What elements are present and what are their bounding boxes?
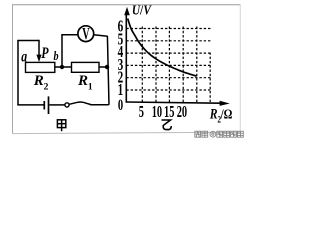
curve U vs R2 — [128, 19, 197, 77]
y axis arrow — [124, 7, 130, 15]
frame bottom — [12, 132, 241, 133]
wire left vertical — [17, 41, 19, 105]
svg-text:2: 2 — [44, 82, 49, 92]
wire voltmeter branch top right — [94, 35, 108, 36]
slider arrow P — [36, 55, 41, 62]
node junction dot left — [60, 65, 64, 69]
gridline h 4 — [126, 52, 211, 54]
frame right — [239, 4, 241, 133]
svg-text:15: 15 — [164, 103, 174, 121]
battery long plate — [48, 96, 50, 114]
frame left — [12, 4, 14, 133]
wire slider drop — [38, 40, 40, 57]
svg-text:R: R — [77, 73, 88, 89]
gridline v 10 — [155, 26, 157, 102]
svg-text:10: 10 — [152, 103, 162, 121]
gridline h 5 — [126, 40, 211, 42]
wire R2 to R1 — [55, 66, 72, 68]
wire right vertical — [107, 36, 109, 105]
switch lever — [69, 102, 91, 105]
gridline v 20 — [182, 26, 184, 102]
svg-text:5: 5 — [139, 103, 144, 121]
y axis — [125, 13, 127, 102]
svg-text:V: V — [82, 24, 89, 42]
gridline v 30 — [209, 53, 211, 103]
voltmeter V — [78, 26, 94, 42]
x axis — [126, 102, 221, 103]
watermark — [195, 131, 244, 137]
gridline h 1 — [126, 89, 211, 91]
rheostat R2 box — [26, 62, 55, 72]
svg-text:b: b — [54, 49, 59, 63]
gridline h 3 — [126, 64, 211, 66]
gridline v 15 — [168, 26, 170, 102]
svg-text:0: 0 — [118, 96, 124, 114]
svg-text:R: R — [33, 73, 44, 89]
battery short plate — [43, 101, 45, 110]
svg-text:R: R — [209, 105, 218, 122]
node junction dot right — [105, 65, 109, 69]
svg-text:/Ω: /Ω — [220, 106, 233, 122]
svg-text:P: P — [41, 44, 49, 62]
resistor R1 box — [72, 62, 100, 72]
wire voltmeter branch top left — [61, 34, 78, 36]
axis label R2/Ohm — [209, 105, 232, 124]
gridline h 6 — [126, 28, 211, 30]
wire battery to switch — [49, 104, 65, 106]
axis label U/V — [132, 3, 152, 18]
wire R1 to right node — [99, 66, 109, 68]
svg-text:1: 1 — [88, 82, 93, 92]
wire switch to right — [90, 104, 109, 106]
x axis arrow — [220, 101, 230, 106]
label yi (乙) — [162, 120, 172, 130]
wire voltmeter branch left vertical — [61, 35, 63, 67]
switch pivot circle — [65, 103, 69, 107]
svg-text:20: 20 — [177, 103, 187, 121]
gridline v 25 — [196, 26, 198, 102]
label jia (甲) — [57, 120, 65, 131]
gridline h 2 — [126, 77, 211, 79]
frame top — [12, 4, 241, 6]
wire bottom left — [17, 104, 43, 106]
wire top-left horizontal — [17, 40, 39, 42]
gridline v 5 — [141, 26, 143, 102]
